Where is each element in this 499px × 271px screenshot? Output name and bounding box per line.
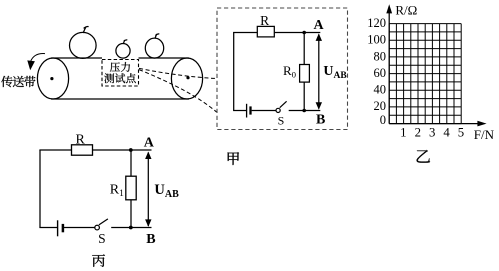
apple 3 xyxy=(145,34,163,58)
resistor R0 xyxy=(300,65,310,83)
y tick labels xyxy=(367,16,386,127)
wire top jia xyxy=(233,32,320,34)
wire R0 branch xyxy=(303,33,305,111)
svg-text:A: A xyxy=(144,136,155,151)
voltage arrow U_AB bing xyxy=(145,152,151,227)
wire R1 branch xyxy=(130,150,132,228)
svg-text:60: 60 xyxy=(374,66,387,80)
svg-text:80: 80 xyxy=(374,49,387,63)
voltage arrow U_AB jia xyxy=(316,33,322,109)
svg-text:2: 2 xyxy=(415,126,421,140)
apple 2 xyxy=(116,40,130,58)
graph grid xyxy=(389,24,461,124)
junction node B jia xyxy=(302,109,306,113)
label 甲 xyxy=(228,152,239,165)
wire bottom jia xyxy=(233,110,320,112)
svg-text:20: 20 xyxy=(374,99,387,113)
svg-text:A: A xyxy=(314,18,325,33)
x tick labels xyxy=(400,126,464,140)
projection dashed line upper xyxy=(139,68,217,78)
svg-text:S: S xyxy=(278,114,285,128)
svg-text:3: 3 xyxy=(429,126,435,140)
svg-text:5: 5 xyxy=(458,126,464,140)
svg-text:B: B xyxy=(316,113,325,128)
resistor R jia xyxy=(257,26,274,37)
svg-text:100: 100 xyxy=(367,33,386,47)
belt top wire xyxy=(51,57,189,59)
junction node A bing xyxy=(129,148,133,152)
wire left bing xyxy=(39,150,41,228)
apple 1 xyxy=(70,27,97,59)
x axis F xyxy=(389,121,486,127)
junction node A jia xyxy=(302,31,306,35)
svg-text:40: 40 xyxy=(374,83,387,97)
battery jia xyxy=(247,104,251,118)
svg-text:S: S xyxy=(98,231,106,246)
junction node B bing xyxy=(129,226,133,230)
rotation arrow xyxy=(27,54,45,71)
enclosure dashed box 甲 xyxy=(217,8,348,130)
wire top bing xyxy=(39,149,151,151)
svg-text:F/N: F/N xyxy=(474,127,495,142)
label 丙 xyxy=(92,254,105,266)
label 传送带 xyxy=(1,76,35,87)
svg-text:4: 4 xyxy=(443,126,450,140)
svg-text:R: R xyxy=(260,13,269,28)
belt bottom wire xyxy=(51,98,189,100)
switch S jia xyxy=(276,101,287,112)
resistor R1 xyxy=(126,176,136,200)
svg-text:B: B xyxy=(146,232,155,247)
switch S bing xyxy=(95,219,108,230)
svg-text:R/Ω: R/Ω xyxy=(395,2,417,17)
wire left jia xyxy=(233,33,235,111)
pulley left xyxy=(37,58,68,99)
svg-text:0: 0 xyxy=(380,113,386,127)
test point box 压力测试点 xyxy=(102,60,139,87)
svg-text:1: 1 xyxy=(400,126,406,140)
resistor R bing xyxy=(72,145,93,155)
pulley right xyxy=(171,58,202,99)
y axis R xyxy=(386,4,392,123)
projection dashed line lower xyxy=(139,70,217,112)
label 乙 xyxy=(417,150,430,163)
svg-text:120: 120 xyxy=(367,16,386,30)
svg-text:R: R xyxy=(76,132,86,147)
battery bing xyxy=(58,220,63,236)
wire bottom bing xyxy=(39,227,151,229)
